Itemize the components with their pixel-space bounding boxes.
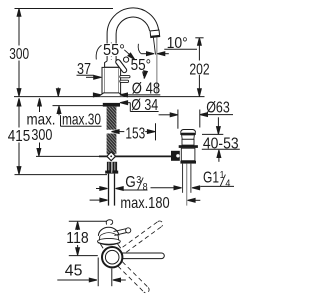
svg-text:55°: 55° (103, 42, 125, 59)
drain body (181, 148, 195, 161)
svg-text:3: 3 (136, 175, 141, 186)
lever down-position marks (120, 76, 130, 78)
dashed spout position lower (118, 262, 149, 293)
faucet body (102, 67, 121, 96)
dimension 40-53 (217, 117, 219, 127)
drain neck (182, 135, 195, 139)
svg-text:300: 300 (31, 127, 52, 144)
diameter 63 leader and extension lines (159, 114, 171, 116)
trapezoid to base (plan) (100, 244, 103, 248)
dimension 415 vertical line (17, 98, 21, 106)
drain pipe (182, 164, 184, 193)
dimension 300 vertical line (18, 10, 20, 46)
dashed spout position upper (123, 221, 163, 252)
dimension max.300 vertical line (38, 98, 42, 106)
deck bottom line (53, 105, 120, 107)
flexible hoses (108, 174, 110, 206)
dome arc of body (plan) (98, 227, 118, 236)
svg-text:G: G (125, 174, 136, 191)
top extension line (69, 220, 107, 222)
svg-text:Ø 34: Ø 34 (131, 97, 158, 114)
svg-text:45: 45 (65, 263, 83, 280)
drain flange nut (179, 145, 198, 148)
base circle (plan) (102, 247, 122, 267)
dimension 202 (195, 37, 203, 39)
svg-text:40-53: 40-53 (203, 135, 239, 152)
dimension max.180 (90, 199, 100, 201)
rod connector block (171, 151, 180, 161)
deck top line (14, 96, 205, 98)
svg-text:1: 1 (220, 170, 225, 181)
svg-text:max.180: max.180 (120, 195, 169, 212)
drain pop-up cap (181, 130, 196, 133)
svg-text:8: 8 (143, 182, 148, 193)
locknut under deck (103, 103, 120, 107)
rod joint diamond (107, 152, 116, 161)
drain lower nut (180, 161, 196, 164)
threaded shank (lower part) (107, 134, 117, 155)
thread label G3/8 (96, 188, 100, 190)
collar ellipse (plan) (98, 238, 121, 244)
hose connector block (107, 162, 112, 173)
wire: vertical reference line under aerator (156, 37, 158, 93)
pop-up rod (99, 155, 171, 157)
lever (plan) (114, 229, 127, 232)
dimension max.30 (deck thickness) (57, 88, 59, 91)
diameter 34 (120, 101, 128, 105)
faucet spout outer arc (107, 8, 159, 62)
diameter 48 (94, 94, 95, 96)
wire: 10deg slanted stream line (153, 38, 155, 55)
pop-up rod extension line (36, 155, 99, 157)
svg-text:10°: 10° (167, 35, 188, 52)
wire: top extension line (spout max height reference) (15, 8, 114, 10)
angle 10 dimension (138, 44, 141, 54)
aerator at spout end (150, 30, 160, 38)
body sides (plan) (99, 236, 101, 241)
lever knob circle (124, 57, 129, 62)
svg-text:118: 118 (66, 230, 88, 247)
escutcheon base (99, 93, 125, 96)
svg-text:4: 4 (225, 178, 230, 189)
threaded shank (upper part) (107, 107, 117, 130)
svg-text:Ø63: Ø63 (206, 100, 230, 117)
dimension 153 (112, 130, 120, 134)
dimension 118 (76, 222, 80, 230)
lever handle (up position) (115, 59, 128, 74)
svg-text:Ø 48: Ø 48 (132, 80, 160, 97)
bottom extension line (69, 255, 98, 257)
svg-text:55°: 55° (131, 57, 152, 74)
thread label G1 1/4 (151, 187, 175, 189)
wire: extension line at hose-block bottom (15, 174, 108, 176)
drain upper body (182, 139, 194, 145)
angle 55 first: arc + leader arrow (96, 45, 101, 59)
faucet spout inner arc (116, 17, 150, 62)
faucet collar (105, 61, 120, 67)
svg-text:300: 300 (9, 46, 29, 63)
spout bar solid (plan) (122, 253, 164, 259)
faucet centerline (dash-dot) (110, 42, 112, 95)
spout tip curl (plan) (106, 220, 112, 225)
svg-text:max.30: max.30 (62, 112, 101, 129)
svg-text:G1: G1 (203, 170, 219, 187)
svg-text:153: 153 (125, 126, 145, 143)
svg-text:415: 415 (8, 128, 31, 145)
